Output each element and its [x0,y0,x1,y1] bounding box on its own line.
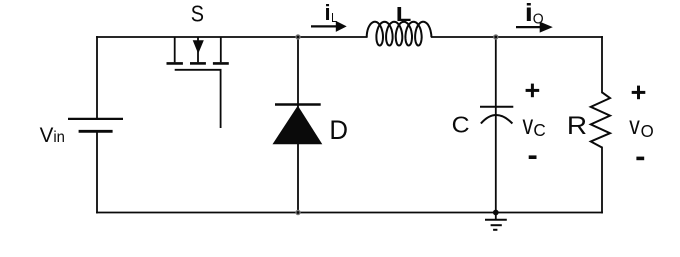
svg-text:L: L [331,10,337,25]
resistor R zigzag [591,92,610,147]
svg-text:Vin: Vin [40,124,65,147]
wire battery bottom lead [96,133,98,213]
battery V1 plates [68,119,123,131]
node A switch-diode junction [295,34,300,39]
diode D [273,105,323,145]
label D [329,114,348,145]
label S [191,0,204,27]
label vO [629,111,640,139]
arrow iO [516,22,553,33]
label plus vC [526,84,540,98]
wire battery top lead [96,37,98,118]
wire resistor top lead [601,37,603,92]
wire resistor bottom lead [601,148,603,213]
svg-text:D: D [329,114,348,145]
svg-text:C: C [452,112,470,138]
label minus vO [636,157,644,161]
ground [485,213,507,230]
node B coil-cap junction [493,34,498,39]
inductor L coil [367,22,432,46]
label Vin [40,124,65,147]
wire top rail right [432,36,602,38]
label vC [523,110,534,140]
svg-text:S: S [191,0,204,27]
label R [567,112,587,140]
svg-text:i: i [525,0,533,26]
label plus vO [632,86,646,100]
label iL [325,0,331,25]
arrow iL [311,21,347,32]
label iO [525,0,533,26]
transistor S (MOSFET switch) [167,37,229,128]
svg-text:O: O [641,121,654,141]
svg-text:O: O [533,11,544,27]
svg-text:L: L [396,2,412,25]
wire bottom rail [97,212,602,214]
wire capacitor branch [495,37,497,213]
svg-text:R: R [567,112,587,140]
wire diode branch [297,37,299,213]
svg-text:C: C [533,120,545,140]
svg-text:i: i [325,0,331,25]
node D cap-rail-ground junction [493,210,499,216]
capacitor C plates [480,107,513,124]
label C [452,112,470,138]
label minus vC [529,155,537,159]
wire top rail left [97,36,367,38]
label L [396,2,412,25]
svg-text:v: v [629,111,640,139]
node C diode-rail junction [295,210,300,215]
svg-text:v: v [523,110,534,140]
